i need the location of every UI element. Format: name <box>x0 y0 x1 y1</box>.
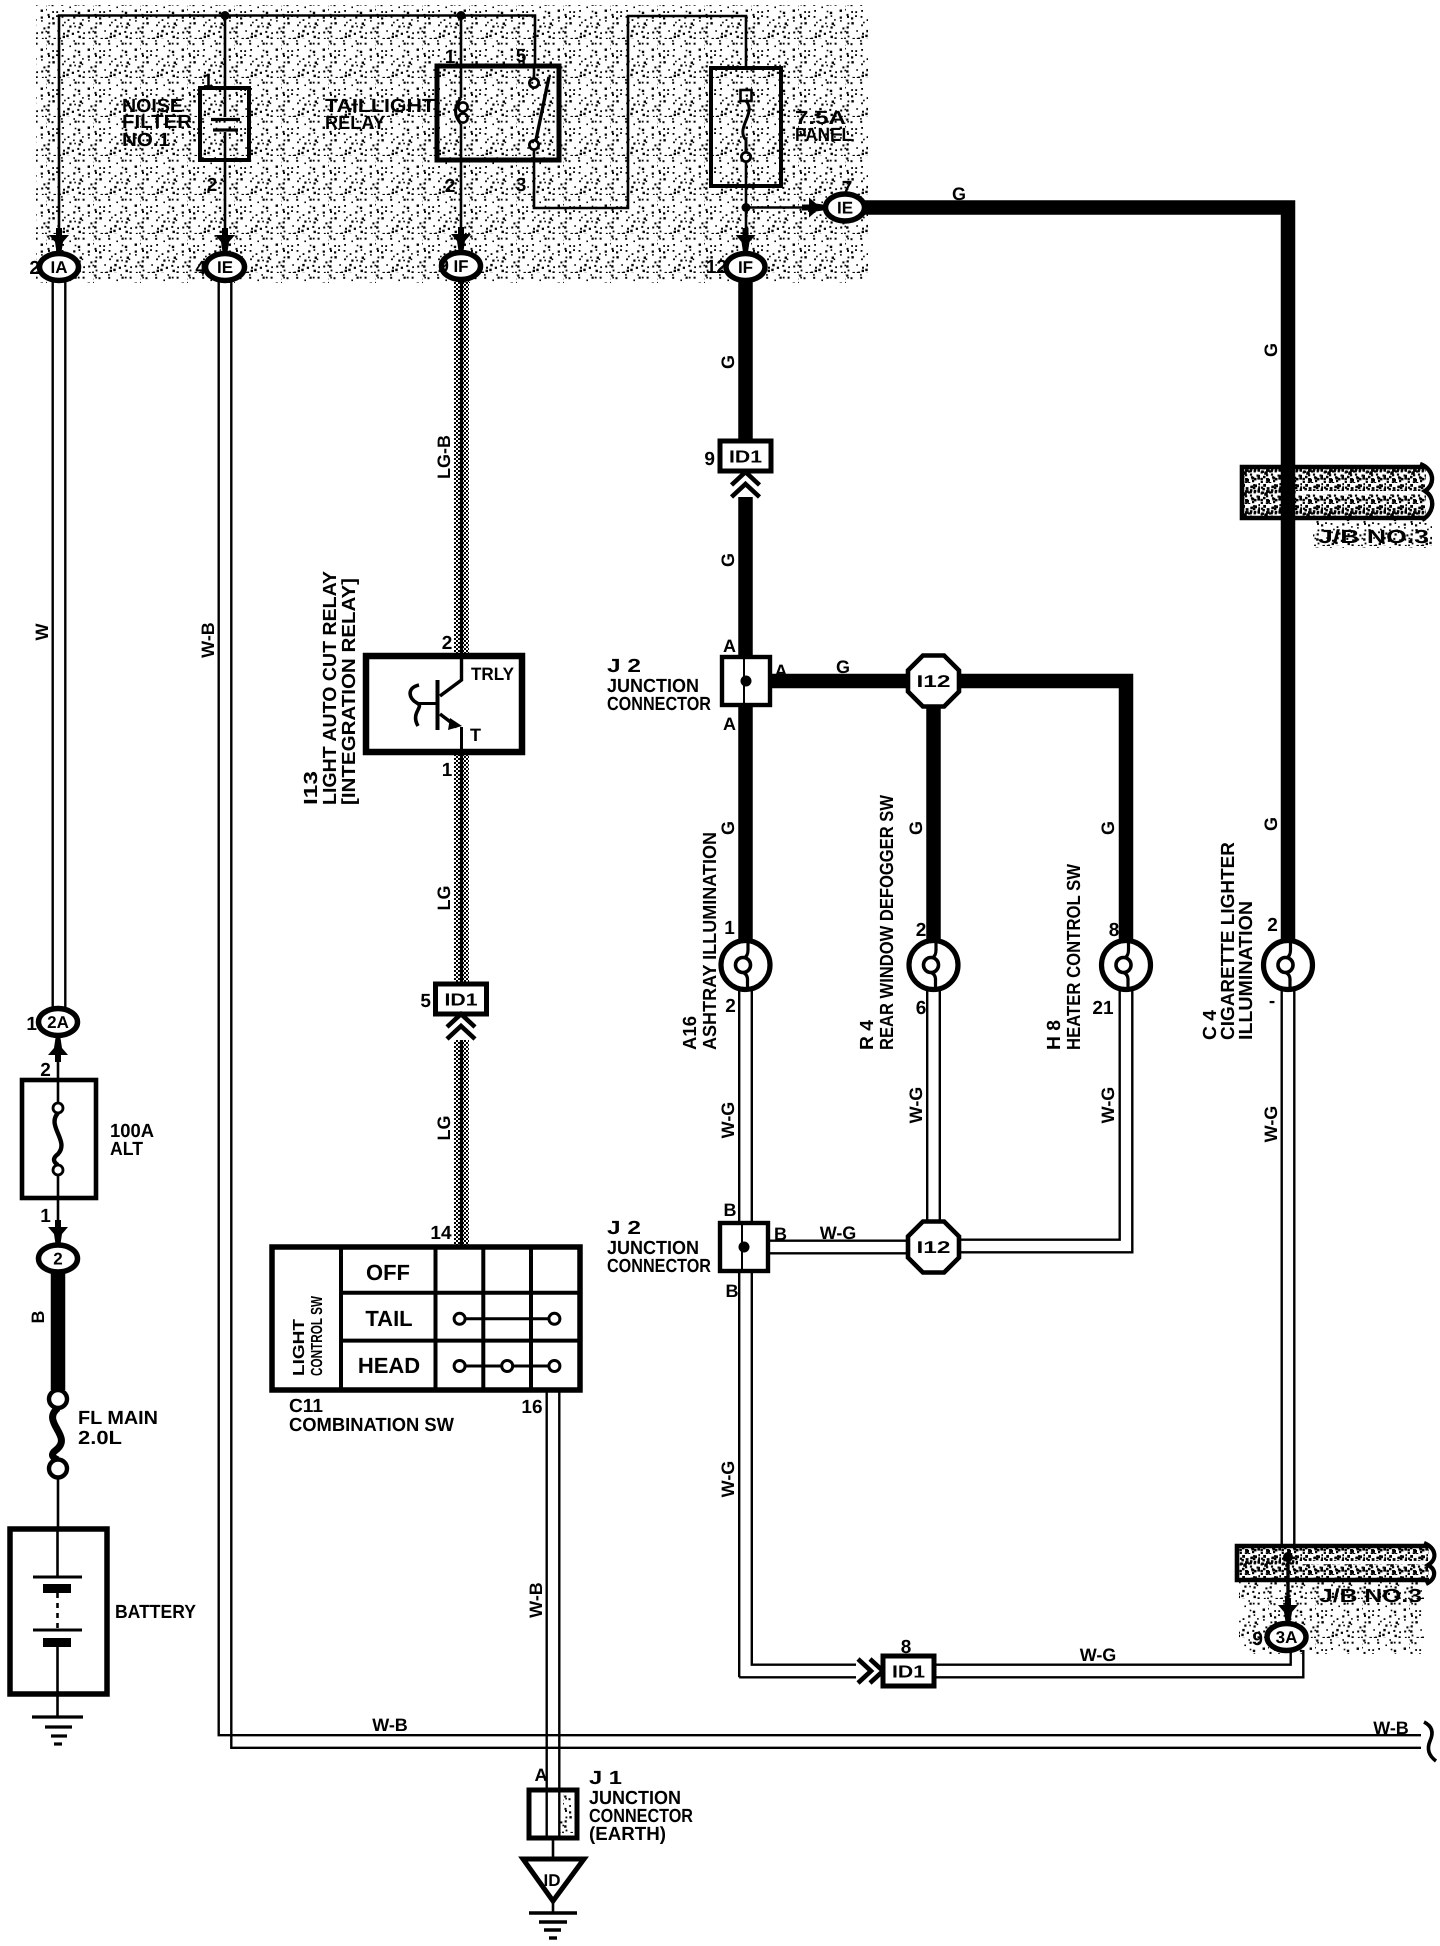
junction connector J1 earth <box>529 1790 577 1838</box>
pin 1 noise filter <box>203 71 214 92</box>
stipple block lower J/B <box>1239 1580 1424 1654</box>
stipple behind upper J/B text <box>1313 518 1432 548</box>
label W <box>32 624 52 641</box>
label W-G <box>1080 1645 1117 1665</box>
label G R4 col <box>906 821 926 835</box>
wire A16 J2 down to ID1-8 <box>739 1271 856 1677</box>
svg-text:4: 4 <box>195 258 206 279</box>
fuse 7.5A panel <box>711 68 781 186</box>
wire W-G ID1-8 to 3A <box>934 1650 1303 1677</box>
svg-text:W-G: W-G <box>1098 1087 1118 1124</box>
svg-text:W-G: W-G <box>906 1087 926 1124</box>
svg-text:A: A <box>723 636 736 656</box>
svg-text:I12: I12 <box>917 672 951 691</box>
label B above J2 lower <box>724 1200 737 1220</box>
wire node down to IF12 <box>745 207 748 234</box>
wire G thick IF12 to ID1-9 <box>738 280 753 441</box>
svg-text:G: G <box>836 657 850 677</box>
junction connector J2 lower <box>720 1223 768 1271</box>
wire fuse bottom to node <box>745 186 748 207</box>
svg-text:12: 12 <box>706 257 727 278</box>
svg-text:RELAY: RELAY <box>325 113 385 134</box>
connector I12 lower <box>908 1222 959 1273</box>
svg-text:OFF: OFF <box>366 1260 410 1285</box>
wire W-G R4 down to I12 <box>927 990 940 1223</box>
wire W-G A16 down <box>739 990 752 1223</box>
pin 2 noise filter <box>207 175 218 196</box>
label TAIL <box>365 1306 412 1331</box>
lamp C4 cigarette lighter illumination <box>1264 941 1313 990</box>
wire W-B from IE down and across bottom <box>219 281 1421 1748</box>
label LG upper <box>434 886 454 911</box>
wire relay pin3 loop to fuse bus <box>534 16 746 208</box>
svg-text:COMBINATION SW: COMBINATION SW <box>289 1415 454 1436</box>
svg-text:B: B <box>28 1311 48 1324</box>
junction connector J2 upper <box>722 657 770 705</box>
svg-text:(EARTH): (EARTH) <box>589 1824 666 1845</box>
wire W from IA down <box>53 281 66 1009</box>
pin 6 R4 <box>916 998 927 1019</box>
pin 2 C4 <box>1267 915 1278 936</box>
svg-text:6: 6 <box>916 998 927 1019</box>
svg-text:5: 5 <box>420 991 431 1012</box>
label G horizontal <box>952 184 966 204</box>
svg-text:W-G: W-G <box>1080 1645 1117 1665</box>
svg-text:1: 1 <box>445 47 456 68</box>
wire ALT to 2 oval <box>48 1198 68 1244</box>
node in upper J/B bar <box>1283 488 1293 498</box>
wire bar to 3A arrow <box>1278 1557 1298 1622</box>
svg-text:A: A <box>723 714 736 734</box>
pin 7 fuse output <box>842 178 853 199</box>
wire G thick J2 down to A16 <box>738 705 753 940</box>
wire G thick ID1-9 to J2 <box>738 497 753 657</box>
label J1 junction connector earth <box>589 1768 693 1845</box>
svg-text:G: G <box>718 553 738 567</box>
label A above J2 <box>723 636 736 656</box>
pin 1 I13 <box>442 760 453 781</box>
stippled junction block background <box>36 5 868 283</box>
svg-text:9: 9 <box>1252 1629 1263 1650</box>
chevrons below ID1-5 <box>447 1014 475 1039</box>
connector 8 ID1 <box>883 1637 934 1686</box>
svg-text:IE: IE <box>217 258 233 277</box>
label W-B bottom right <box>1373 1718 1409 1738</box>
svg-text:B: B <box>724 1200 737 1220</box>
svg-text:BATTERY: BATTERY <box>115 1602 196 1623</box>
relay taillight <box>437 66 559 160</box>
svg-text:2.0L: 2.0L <box>78 1428 122 1449</box>
svg-text:B: B <box>726 1281 739 1301</box>
svg-text:HEAD: HEAD <box>358 1353 420 1378</box>
wire W-G H8 down to I12 <box>959 990 1132 1252</box>
wire relay pin2 to IF <box>460 160 463 233</box>
pin 2 relay <box>445 176 456 197</box>
label BATTERY <box>115 1602 196 1623</box>
svg-text:G: G <box>1098 821 1118 835</box>
switch C11 combination light control <box>272 1247 580 1390</box>
junction block J/B NO.3 lower <box>1237 1543 1434 1584</box>
ground symbol bottom <box>529 1901 577 1938</box>
label W-G H8 <box>1098 1087 1118 1124</box>
svg-text:5: 5 <box>516 46 527 67</box>
svg-text:J 1: J 1 <box>589 1768 623 1789</box>
svg-text:2: 2 <box>442 633 453 654</box>
fuse 100A ALT <box>22 1080 96 1198</box>
svg-text:W-G: W-G <box>718 1102 738 1139</box>
pin 1 relay <box>445 47 456 68</box>
switch contacts HEAD row <box>454 1361 560 1372</box>
svg-text:W-B: W-B <box>372 1715 408 1735</box>
junction block J/B NO.3 upper <box>1242 464 1432 520</box>
label J2 junction connector lower <box>607 1218 711 1277</box>
label W-B left vertical <box>198 622 218 658</box>
label G H8 col <box>1098 821 1118 835</box>
fusible link FL MAIN 2.0L <box>49 1390 67 1529</box>
svg-text:8: 8 <box>1109 920 1120 941</box>
svg-text:CONNECTOR: CONNECTOR <box>607 1256 711 1277</box>
node in lower J/B bar <box>1283 1552 1293 1562</box>
svg-text:IA: IA <box>51 258 68 277</box>
svg-text:G: G <box>1261 817 1281 831</box>
svg-text:1: 1 <box>26 1014 37 1035</box>
wire G thick I12 to H8 <box>959 681 1126 940</box>
pin 5 relay <box>516 46 527 67</box>
pin 2 ALT <box>40 1060 51 1081</box>
label W-G R4 <box>906 1087 926 1124</box>
connector 9 IF <box>438 253 480 280</box>
connector 2 IA <box>29 254 78 281</box>
svg-text:TAIL: TAIL <box>365 1306 412 1331</box>
label LG-B <box>434 435 454 479</box>
wire top bus B+ <box>59 16 535 234</box>
label light control sw <box>291 1295 326 1376</box>
break hook bottom right <box>1424 1722 1436 1761</box>
svg-text:W-B: W-B <box>1373 1718 1409 1738</box>
svg-text:W-B: W-B <box>526 1582 546 1618</box>
svg-text:W-B: W-B <box>198 622 218 658</box>
label G C4 col <box>1261 817 1281 831</box>
connector 4 IE <box>195 254 244 281</box>
pin 3 relay <box>516 175 527 196</box>
label J/B NO.3 upper <box>1318 527 1429 548</box>
wire B thick to FL MAIN <box>51 1271 66 1390</box>
svg-text:1: 1 <box>40 1206 51 1227</box>
label T <box>470 725 481 745</box>
svg-text:2: 2 <box>445 176 456 197</box>
label HEAD <box>358 1353 420 1378</box>
label 100A ALT <box>110 1121 154 1160</box>
svg-text:2: 2 <box>207 175 218 196</box>
svg-text:J/B NO.3: J/B NO.3 <box>1318 527 1429 548</box>
arrow into IE4 <box>215 228 235 252</box>
label R4 rear window defogger sw <box>857 795 898 1050</box>
label B <box>28 1311 48 1324</box>
label W-G lower A16 <box>718 1461 738 1498</box>
svg-text:9: 9 <box>438 256 449 277</box>
svg-text:G: G <box>952 184 966 204</box>
svg-text:2: 2 <box>725 996 736 1017</box>
svg-text:W: W <box>32 624 52 641</box>
svg-text:1: 1 <box>724 918 735 939</box>
svg-text:2: 2 <box>29 258 40 279</box>
lamp A16 ashtray illumination <box>721 941 770 990</box>
label FL MAIN 2.0L <box>78 1408 158 1449</box>
svg-text:2: 2 <box>53 1250 62 1269</box>
label TRLY <box>471 664 514 684</box>
arrow up into 2A <box>48 1038 68 1062</box>
label G A16 col <box>718 821 738 835</box>
switch contacts TAIL row <box>454 1313 560 1324</box>
label OFF <box>366 1260 410 1285</box>
connector I12 upper <box>908 656 959 707</box>
arrow into IA <box>49 228 69 252</box>
label G <box>718 355 738 369</box>
label C4 cigarette lighter illumination <box>1200 842 1257 1040</box>
svg-text:G: G <box>718 821 738 835</box>
label G right vertical <box>1261 343 1281 357</box>
svg-text:IF: IF <box>738 258 753 277</box>
label W-G A16 <box>718 1102 738 1139</box>
svg-text:2: 2 <box>1267 915 1278 936</box>
label W-G C4 <box>1261 1106 1281 1143</box>
label A16 ashtray illumination <box>680 832 721 1050</box>
label G <box>718 553 738 567</box>
chevrons into ID1-8 <box>858 1659 883 1683</box>
svg-text:21: 21 <box>1092 998 1114 1019</box>
wire W-B from C11 pin16 to J1 <box>547 1390 560 1790</box>
svg-text:J 2: J 2 <box>607 656 641 677</box>
label H8 heater control sw <box>1044 864 1085 1050</box>
relay I13 light auto cut (integration relay) <box>366 656 522 752</box>
wire LG-B from IF9 to I13 <box>454 280 469 655</box>
label J/B NO.3 lower <box>1319 1586 1422 1607</box>
label C11 combination sw <box>289 1396 454 1436</box>
svg-text:G: G <box>1261 343 1281 357</box>
connector 2 oval <box>39 1245 78 1272</box>
svg-text:J 2: J 2 <box>607 1218 641 1239</box>
svg-text:C11: C11 <box>289 1396 323 1417</box>
capacitor noise filter no.1 <box>200 88 249 160</box>
svg-text:ID1: ID1 <box>892 1662 925 1682</box>
node bus junction relay pin1 <box>457 11 466 20</box>
pin 14 C11 <box>430 1223 452 1244</box>
wire W-G C4 down <box>1282 990 1295 1548</box>
wire noise filter drop <box>224 15 227 234</box>
ground triangle ID <box>523 1859 584 1901</box>
svg-text:16: 16 <box>521 1397 542 1418</box>
svg-text:1: 1 <box>203 71 214 92</box>
lamp R4 rear window defogger sw <box>909 941 958 990</box>
label B right of J2 lower <box>774 1224 787 1244</box>
pin 21 H8 <box>1092 998 1114 1019</box>
svg-text:J/B NO.3: J/B NO.3 <box>1319 1586 1422 1607</box>
svg-text:NO.1: NO.1 <box>122 130 170 151</box>
wire G thick I12 down to R4 <box>926 707 941 940</box>
svg-text:G: G <box>718 355 738 369</box>
svg-text:14: 14 <box>430 1223 452 1244</box>
label W-B C11 col <box>526 1582 546 1618</box>
connector 7 IE <box>826 194 865 221</box>
label LG lower <box>434 1116 454 1141</box>
pin minus C4 <box>1269 991 1275 1012</box>
connector 9 ID1 <box>704 441 771 471</box>
label taillight relay <box>325 96 435 134</box>
label W-B bottom left <box>372 1715 408 1735</box>
arrow into IF12 <box>736 228 756 252</box>
svg-text:2: 2 <box>916 920 927 941</box>
node fuse output junction <box>742 203 751 212</box>
svg-text:FL MAIN: FL MAIN <box>78 1408 158 1429</box>
svg-text:ID1: ID1 <box>729 447 762 467</box>
connector 5 ID1 <box>420 984 486 1014</box>
pin 1 ALT <box>40 1206 51 1227</box>
wire relay pin1 drop <box>460 15 463 66</box>
svg-text:W-G: W-G <box>820 1223 857 1243</box>
label A right of J2 <box>775 661 788 681</box>
svg-text:9: 9 <box>704 449 715 470</box>
svg-text:2A: 2A <box>47 1013 69 1032</box>
label W-G above <box>820 1223 857 1243</box>
wire node to IE7 arrow <box>746 198 826 218</box>
svg-text:TRLY: TRLY <box>471 664 514 684</box>
svg-text:G: G <box>906 821 926 835</box>
label I13 light auto cut relay <box>301 571 360 805</box>
svg-text:W-G: W-G <box>718 1461 738 1498</box>
wire LG ID1 to C11 <box>454 1040 469 1247</box>
svg-text:-: - <box>1269 991 1275 1012</box>
svg-text:1: 1 <box>442 760 453 781</box>
pin 16 C11 <box>521 1397 542 1418</box>
svg-text:LG: LG <box>434 1116 454 1141</box>
svg-text:3A: 3A <box>1276 1628 1298 1647</box>
svg-text:CONNECTOR: CONNECTOR <box>607 694 711 715</box>
label A J1 <box>535 1765 548 1785</box>
label J2 junction connector upper <box>607 656 711 715</box>
arrow into IF9 <box>451 227 471 251</box>
svg-text:I12: I12 <box>917 1238 951 1257</box>
label noise filter <box>122 96 192 151</box>
ground battery <box>32 1694 83 1744</box>
svg-text:ID: ID <box>544 1871 561 1890</box>
wire G thick J2 to I12 <box>770 674 908 689</box>
svg-text:PANEL: PANEL <box>795 125 852 146</box>
svg-text:3: 3 <box>516 175 527 196</box>
label B below J2 lower <box>726 1281 739 1301</box>
svg-text:T: T <box>470 725 481 745</box>
wire G thick from IE7 to C4 <box>862 208 1288 941</box>
svg-text:ID1: ID1 <box>445 990 478 1010</box>
connector 1 2A <box>26 1009 77 1036</box>
pin 1 A16 <box>724 918 735 939</box>
chevrons below ID1-9 <box>732 472 760 497</box>
lamp H8 heater control sw <box>1102 941 1151 990</box>
connector 12 IF <box>706 254 765 281</box>
pin 2 A16 <box>725 996 736 1017</box>
wire LG I13 to ID1 <box>454 752 469 986</box>
svg-text:IF: IF <box>453 257 468 276</box>
label A below J2 <box>723 714 736 734</box>
label G above J2-I12 <box>836 657 850 677</box>
wire 2A to ALT <box>57 1058 60 1080</box>
svg-text:ALT: ALT <box>110 1139 143 1160</box>
pin 8 H8 <box>1109 920 1120 941</box>
node bus junction noise filter <box>221 11 230 20</box>
label 7.5A panel <box>795 108 852 146</box>
connector 9 3A <box>1252 1624 1306 1651</box>
battery <box>10 1529 107 1694</box>
svg-text:IE: IE <box>837 199 853 218</box>
wire W-G J2 to I12 lower <box>768 1241 908 1254</box>
svg-text:8: 8 <box>901 1637 912 1658</box>
svg-text:LG-B: LG-B <box>434 435 454 479</box>
svg-text:LG: LG <box>434 886 454 911</box>
svg-text:A: A <box>535 1765 548 1785</box>
wire J1 to ground triangle <box>552 1838 555 1859</box>
pin 2 R4 <box>916 920 927 941</box>
pin 2 I13 <box>442 633 453 654</box>
svg-text:W-G: W-G <box>1261 1106 1281 1143</box>
